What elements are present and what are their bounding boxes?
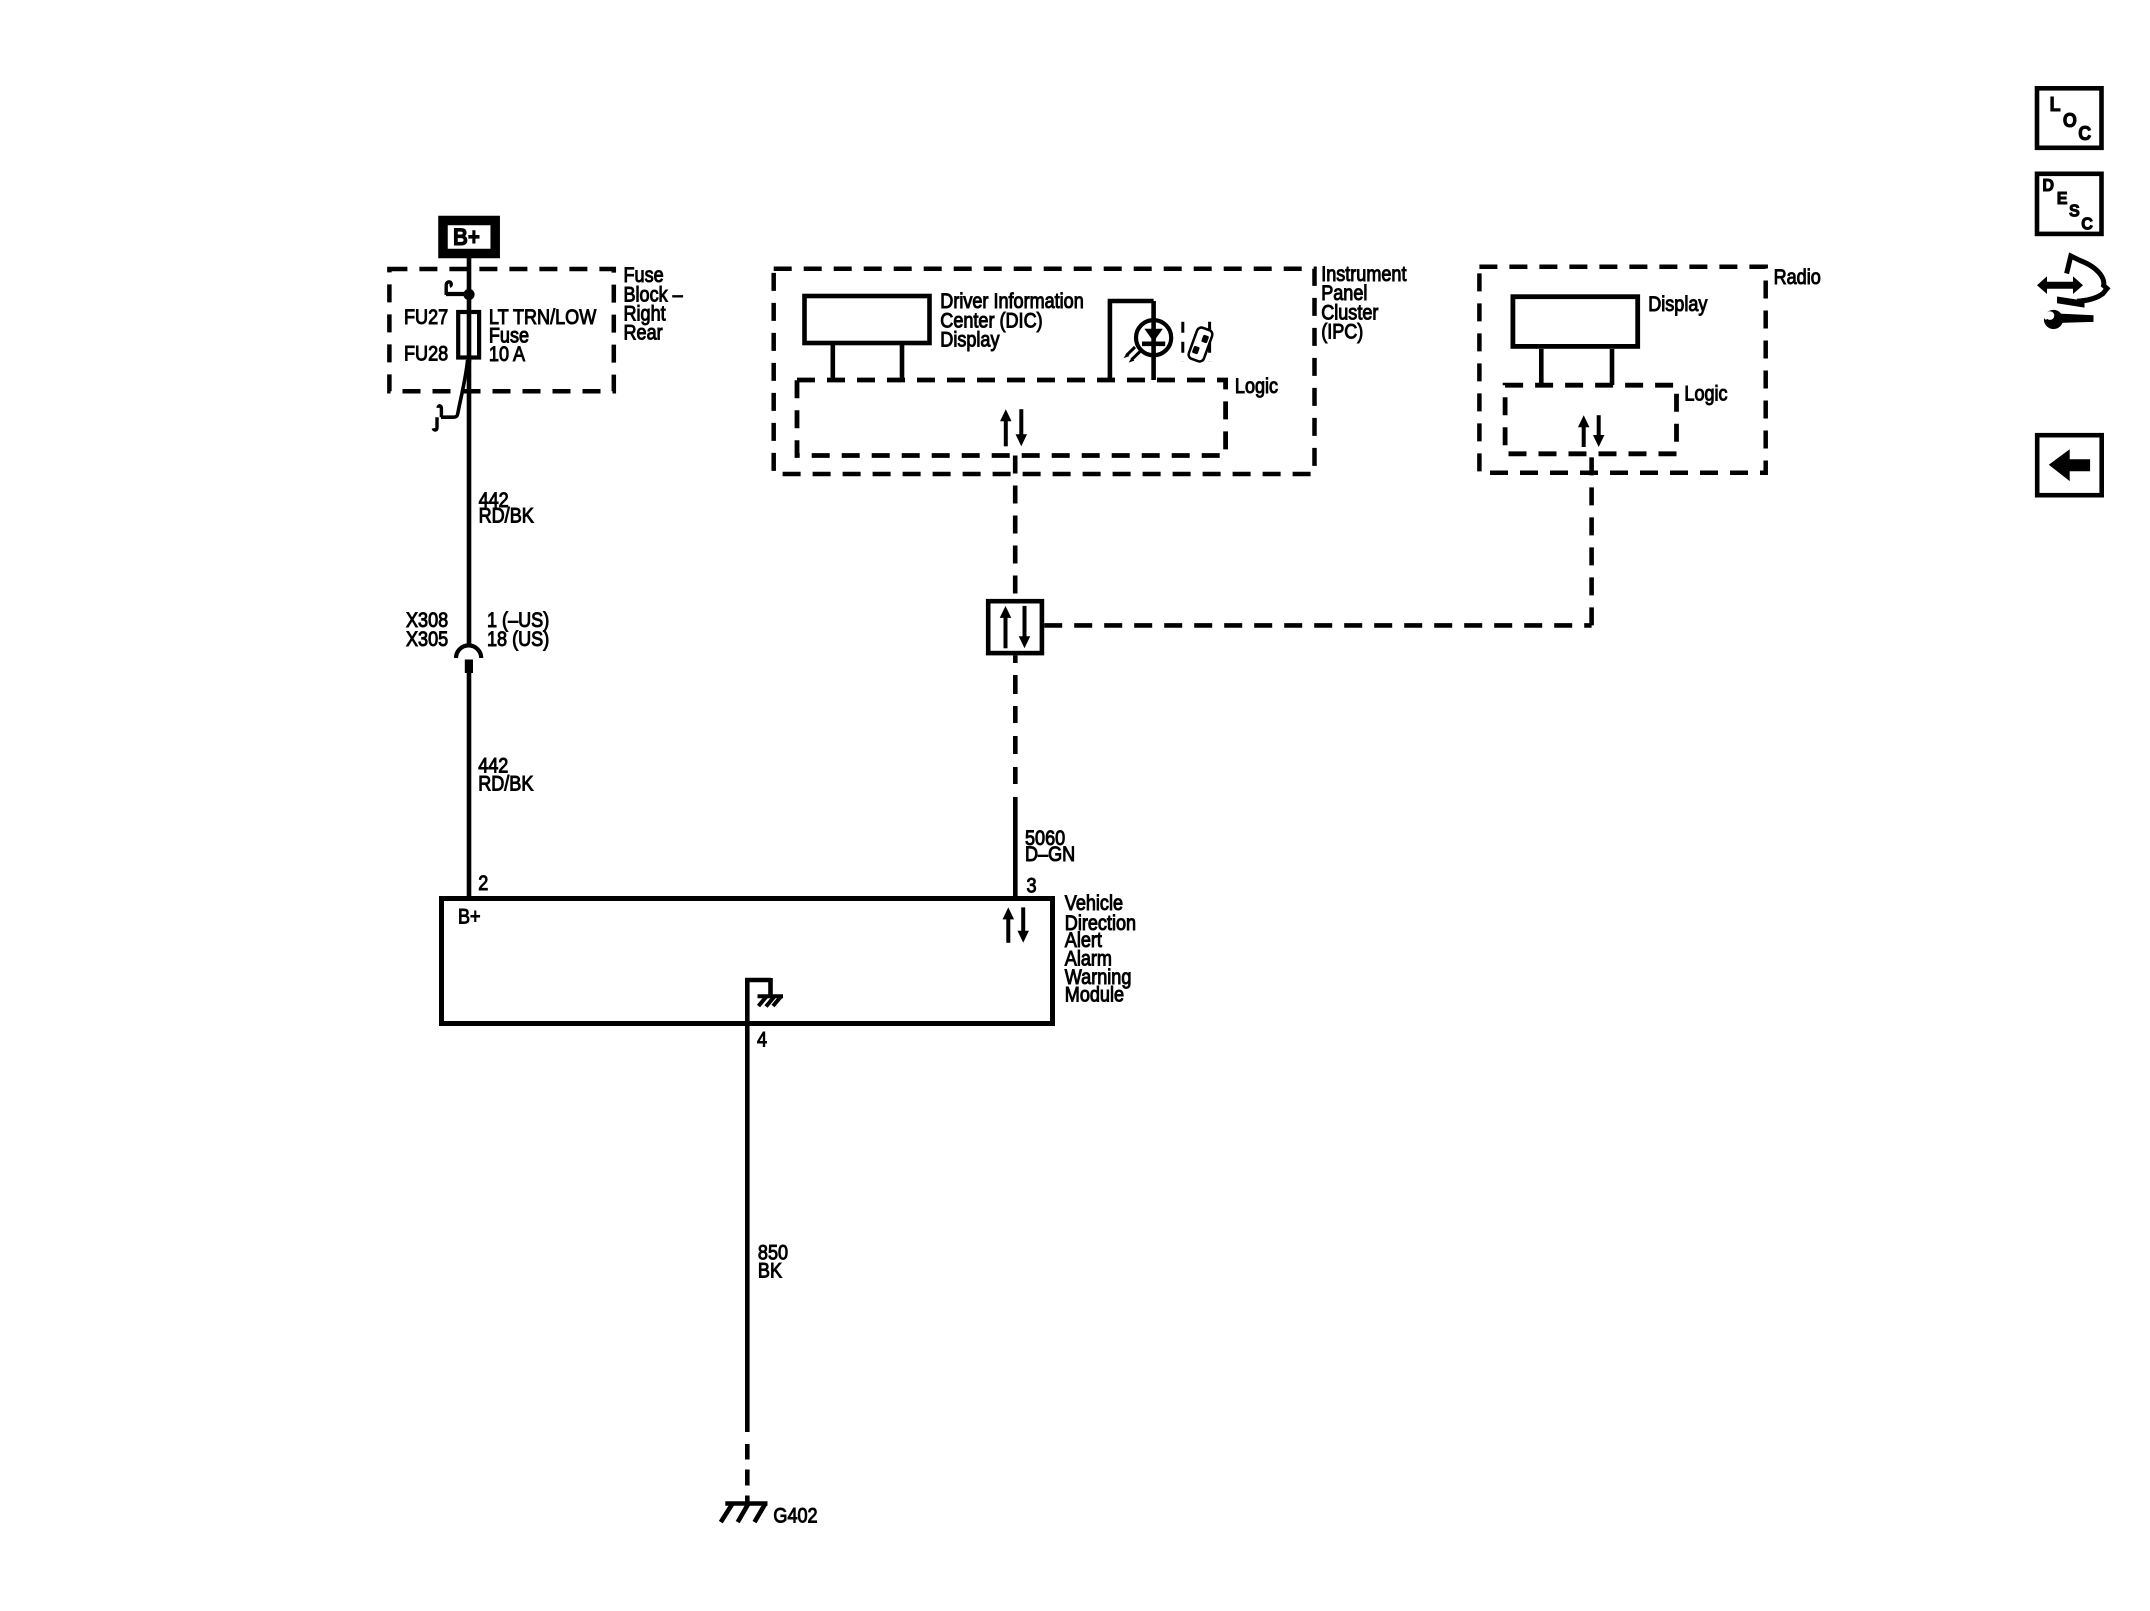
nav icon DESC [2037, 174, 2102, 234]
LED emission arrows [1124, 347, 1140, 363]
IPC logic dashed box [797, 380, 1226, 456]
svg-text:Display: Display [940, 328, 999, 352]
radio display box [1513, 297, 1638, 347]
svg-text:B+: B+ [453, 224, 480, 251]
wire fuse to connector [467, 360, 472, 645]
svg-text:X305: X305 [406, 628, 448, 652]
wire 850 module pin 4 to ground [745, 1023, 750, 1432]
svg-text:Logic: Logic [1684, 382, 1727, 406]
fuse block dashed outline [389, 269, 613, 391]
svg-text:RD/BK: RD/BK [479, 504, 534, 528]
svg-text:FU28: FU28 [404, 342, 448, 366]
svg-text:4: 4 [757, 1028, 767, 1052]
svg-text:2: 2 [478, 872, 488, 896]
radio serial data arrows [1578, 415, 1605, 447]
serial data junction box [988, 601, 1042, 653]
nav icon LOC [2037, 88, 2102, 148]
serial data line junction to radio [1044, 454, 1591, 626]
ground G402 symbol [721, 1503, 768, 1522]
serial data line IPC to junction [1013, 456, 1018, 600]
svg-text:D–GN: D–GN [1025, 843, 1075, 867]
svg-text:10 A: 10 A [489, 343, 526, 367]
module serial data arrows [1003, 907, 1029, 942]
wire 850 dashed tail [745, 1444, 750, 1503]
svg-text:D: D [2042, 175, 2054, 195]
svg-text:Logic: Logic [1235, 375, 1278, 399]
junction node with tap to other circuit [446, 282, 475, 300]
serial data line junction to module pin 3 [1013, 656, 1018, 899]
module internal ground symbol [745, 978, 783, 1021]
lane lines beside car symbol [1181, 322, 1184, 362]
IPC telltale LED [1136, 320, 1171, 355]
radio outer dashed box [1479, 267, 1765, 473]
svg-text:FU27: FU27 [404, 306, 448, 330]
radio display legs [1541, 349, 1612, 385]
nav icon back arrow [2037, 435, 2102, 495]
tap to other circuit below fuse [433, 360, 467, 430]
svg-text:(IPC): (IPC) [1321, 320, 1363, 344]
wire B+ to fuse [467, 253, 472, 312]
nav icon diagnostic car with arrow and wrench [2037, 256, 2108, 329]
svg-text:L: L [2050, 94, 2061, 116]
svg-text:O: O [2063, 110, 2077, 132]
IPC outer dashed box [774, 269, 1315, 474]
fuse FU27/FU28 LT TRN/LOW 10A [458, 310, 479, 362]
svg-text:BK: BK [758, 1259, 782, 1283]
power feed B+ box [443, 221, 495, 254]
svg-text:Module: Module [1065, 983, 1124, 1007]
wire connector to module pin 2 [467, 672, 472, 898]
svg-text:S: S [2069, 201, 2080, 221]
IPC telltale LED leads [1108, 301, 1154, 380]
svg-text:C: C [2081, 214, 2093, 234]
svg-text:Display: Display [1648, 293, 1707, 317]
IPC serial data arrows [1000, 409, 1027, 446]
svg-text:3: 3 [1027, 874, 1037, 898]
svg-text:RD/BK: RD/BK [478, 772, 533, 796]
svg-text:18 (US): 18 (US) [487, 628, 549, 652]
svg-text:C: C [2078, 123, 2091, 145]
radio logic dashed box [1505, 385, 1676, 454]
svg-text:G402: G402 [773, 1504, 817, 1528]
svg-text:Radio: Radio [1774, 266, 1821, 290]
in-line connector X308/X305 [456, 645, 481, 673]
svg-text:Rear: Rear [624, 321, 664, 345]
svg-text:E: E [2057, 188, 2068, 208]
DIC display box [805, 296, 930, 343]
DIC display legs [833, 345, 902, 380]
vehicle direction alert alarm warning module box [442, 899, 1053, 1024]
vehicle direction car symbol [1187, 326, 1213, 362]
svg-text:B+: B+ [458, 905, 481, 929]
